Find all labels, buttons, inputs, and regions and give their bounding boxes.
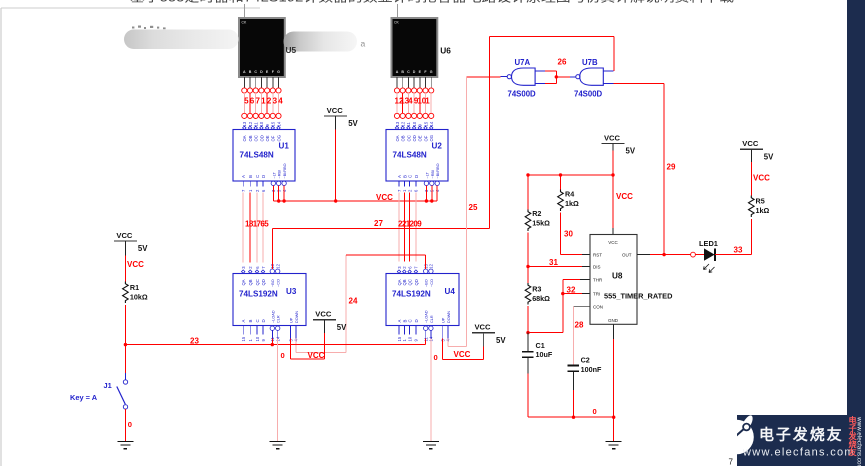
wire col1 bbox=[243, 93, 245, 113]
wire net24 drop to U4 BO bbox=[425, 255, 427, 269]
svg-text:74LS192N: 74LS192N bbox=[392, 290, 431, 299]
wire node circle upper col7 bbox=[276, 88, 281, 93]
power symbol VCC 5V (decoder supply) bbox=[324, 106, 358, 128]
svg-text:VCC: VCC bbox=[608, 240, 618, 245]
wire U2 LT to rail bbox=[425, 186, 427, 202]
U2 input pin numbers bbox=[397, 189, 440, 192]
wire U2 BI to rail bbox=[436, 186, 438, 202]
wire 555 VCC pin stub bbox=[612, 228, 614, 235]
wire node circle upper col7 bbox=[429, 88, 434, 93]
net numbers 5 6 7 1 2 3 4 bbox=[244, 97, 283, 106]
THR pin stub bbox=[580, 278, 590, 280]
wire to TRI pin bbox=[563, 293, 582, 295]
svg-text:1kΩ: 1kΩ bbox=[756, 206, 770, 215]
svg-text:U1: U1 bbox=[279, 142, 290, 151]
left redaction capsule bbox=[124, 30, 239, 50]
svg-text:4: 4 bbox=[278, 97, 283, 106]
wire node26 to U7B output bbox=[556, 76, 570, 78]
wire net24 from U3 DOWN bbox=[295, 339, 297, 353]
U3 bottom labels A B C D bbox=[241, 319, 266, 322]
wire net31 to DIS bbox=[528, 266, 582, 268]
svg-text:5V: 5V bbox=[337, 323, 347, 332]
wire node circle upper col2 bbox=[400, 88, 405, 93]
wire VCC stem to rail bbox=[335, 130, 337, 201]
svg-text:74LS48N: 74LS48N bbox=[240, 151, 274, 160]
wire node circle lower col6 bbox=[270, 113, 275, 118]
wire net24 top horizontal bbox=[346, 254, 426, 256]
display U6 segment labels A-G bbox=[396, 70, 433, 74]
svg-text:VCC: VCC bbox=[127, 260, 144, 269]
svg-text:31: 31 bbox=[549, 258, 558, 267]
wire C1 bottom black bbox=[527, 358, 529, 374]
wire U4 UP drop bbox=[442, 339, 444, 360]
U1 input labels A B C D bbox=[241, 175, 266, 178]
wire OUT to LED bbox=[650, 254, 691, 256]
svg-text:R2: R2 bbox=[532, 209, 541, 218]
svg-text:68kΩ: 68kΩ bbox=[532, 294, 550, 303]
OUT pin stub bbox=[637, 254, 650, 256]
U4 bottom labels A B C D bbox=[397, 319, 419, 322]
svg-text:15: 15 bbox=[423, 121, 428, 126]
wire ground return rail bbox=[528, 416, 614, 418]
svg-text:0: 0 bbox=[128, 420, 132, 429]
svg-text:R1: R1 bbox=[130, 283, 139, 292]
display pin wire segment col7 bbox=[278, 77, 280, 88]
wire col1 bbox=[396, 93, 398, 113]
wire col7 bbox=[278, 93, 280, 113]
NAND gate U7B output bubble bbox=[576, 75, 580, 79]
wire net27 top horizontal bbox=[489, 36, 614, 38]
wire col4 bbox=[413, 93, 415, 113]
ground symbol (U3 CLR) bbox=[270, 442, 286, 449]
svg-text:www.elecfans.com: www.elecfans.com bbox=[856, 416, 863, 466]
svg-text:12: 12 bbox=[429, 263, 434, 268]
svg-text:27: 27 bbox=[374, 219, 383, 228]
svg-text:QB: QB bbox=[248, 279, 253, 285]
svg-text:~CO: ~CO bbox=[277, 279, 281, 287]
svg-text:CON: CON bbox=[593, 305, 603, 310]
U3 top pin numbers bbox=[241, 263, 281, 268]
U2 control labels ~LT ~RBI ~BI/RBO bbox=[425, 163, 440, 178]
wire THR TRI tie riser bbox=[562, 279, 564, 332]
svg-text:1: 1 bbox=[425, 97, 430, 106]
svg-text:G: G bbox=[430, 70, 433, 74]
wire U3 UP drop bbox=[290, 339, 292, 360]
wire net25 U7A output horizontal bbox=[467, 76, 501, 78]
wire node circle lower col1 bbox=[394, 113, 399, 118]
svg-text:555_TIMER_RATED: 555_TIMER_RATED bbox=[604, 292, 673, 301]
svg-text:U7A: U7A bbox=[515, 58, 531, 67]
seven-segment display U6 CK stem bbox=[397, 4, 399, 18]
U1 input pin numbers bbox=[241, 189, 287, 192]
svg-text:OB: OB bbox=[401, 135, 406, 141]
wire U3 CLR to ground bbox=[277, 339, 279, 442]
svg-text:QD: QD bbox=[261, 279, 266, 285]
watermark side strip bbox=[847, 0, 865, 466]
svg-text:U7B: U7B bbox=[582, 58, 598, 67]
display pin wire segment col1 bbox=[396, 77, 398, 88]
svg-text:10: 10 bbox=[255, 336, 260, 341]
svg-text:U2: U2 bbox=[432, 142, 443, 151]
wire U4 VCC stem black bbox=[483, 333, 485, 347]
svg-text:OD: OD bbox=[259, 135, 264, 141]
svg-text:CLR: CLR bbox=[430, 315, 434, 323]
resistor R4 body bbox=[558, 190, 564, 211]
svg-text:10uF: 10uF bbox=[536, 350, 553, 359]
svg-text:VCC: VCC bbox=[604, 133, 621, 142]
wire switch top stub bbox=[124, 373, 126, 380]
svg-text:~BO: ~BO bbox=[425, 279, 429, 287]
wire U2 RBI to rail bbox=[431, 186, 433, 202]
wire R1 VCC stem black bbox=[124, 241, 126, 255]
wire node circle lower col7 bbox=[276, 113, 281, 118]
svg-text:UP: UP bbox=[442, 317, 446, 323]
svg-text:~CO: ~CO bbox=[430, 279, 434, 287]
wire net25 bottom jog bbox=[448, 345, 467, 347]
svg-text:15: 15 bbox=[271, 121, 276, 126]
svg-text:R5: R5 bbox=[756, 197, 765, 206]
wire C2 to ground rail bbox=[573, 390, 575, 417]
svg-text:23: 23 bbox=[190, 337, 199, 346]
wire VCC stem black segment bbox=[335, 116, 337, 130]
wire VCC to R5 bbox=[750, 162, 752, 195]
wire col4 bbox=[260, 93, 262, 113]
switch J1 bottom contact bbox=[123, 405, 127, 409]
wire net23 rail bbox=[125, 344, 425, 346]
wire node circle upper col4 bbox=[412, 88, 417, 93]
seven-segment display U6 body bbox=[392, 18, 438, 77]
svg-text:UP: UP bbox=[290, 317, 294, 323]
resistor R1 body bbox=[123, 282, 129, 304]
wire net25 long drop bbox=[466, 77, 468, 346]
svg-text:~RBI: ~RBI bbox=[431, 170, 435, 179]
svg-text:74LS48N: 74LS48N bbox=[393, 151, 427, 160]
svg-text:4: 4 bbox=[408, 97, 413, 106]
svg-text:VCC: VCC bbox=[116, 231, 133, 240]
wire node circle upper col5 bbox=[417, 88, 422, 93]
wire node circle upper col5 bbox=[265, 88, 270, 93]
wire node circle lower col7 bbox=[429, 113, 434, 118]
wire node circle lower col3 bbox=[406, 113, 411, 118]
svg-text:OF: OF bbox=[423, 135, 428, 141]
svg-text:6: 6 bbox=[250, 97, 255, 106]
svg-text:1kΩ: 1kΩ bbox=[565, 199, 579, 208]
right redaction capsule bbox=[284, 32, 358, 52]
svg-text:24: 24 bbox=[349, 297, 358, 306]
svg-text:28: 28 bbox=[575, 321, 584, 330]
wire net30 to RST bbox=[561, 254, 583, 256]
svg-text:C1: C1 bbox=[536, 341, 545, 350]
svg-text:QD: QD bbox=[414, 279, 419, 285]
wire node circle upper col6 bbox=[270, 88, 275, 93]
svg-text:11: 11 bbox=[406, 121, 411, 126]
bus wires U1 to U3 (nets 18 17 16 5) bbox=[243, 193, 263, 263]
wire U3 UP horizontal bbox=[291, 358, 325, 360]
wire net25 into U4 DOWN bbox=[447, 339, 449, 347]
wire node circle upper col4 bbox=[259, 88, 264, 93]
wire net29 horizontal bbox=[614, 83, 665, 85]
U7B input stubs bbox=[603, 70, 613, 72]
svg-text:OA: OA bbox=[395, 135, 400, 141]
U1 output pin numbers bbox=[242, 121, 281, 126]
wire to THR pin bbox=[563, 278, 580, 280]
junction node 26 bbox=[555, 75, 558, 78]
TRI pin stub bbox=[582, 293, 590, 295]
svg-text:a: a bbox=[361, 39, 366, 49]
wire col2 bbox=[402, 93, 404, 113]
wire LED cathode to R5 bbox=[715, 254, 751, 256]
U2 input labels A B C D bbox=[397, 175, 419, 178]
wire net29 drop bbox=[663, 84, 665, 255]
svg-text:CK: CK bbox=[242, 21, 247, 25]
svg-text:OC: OC bbox=[406, 135, 411, 141]
svg-text:0: 0 bbox=[434, 353, 438, 362]
svg-text:C: C bbox=[255, 175, 260, 178]
ground symbol (U4 CLR) bbox=[423, 442, 439, 449]
wire node circle lower col2 bbox=[400, 113, 405, 118]
svg-text:U5: U5 bbox=[286, 45, 297, 55]
U1 bottom pin stubs bbox=[243, 181, 263, 187]
display pin wire segment col5 bbox=[266, 77, 268, 88]
display pin wire segment col4 bbox=[260, 77, 262, 88]
wire col5 bbox=[266, 93, 268, 113]
wire node circle lower col2 bbox=[247, 113, 252, 118]
svg-text:10: 10 bbox=[259, 121, 264, 126]
svg-text:TRI: TRI bbox=[593, 292, 600, 297]
sheet border left edge bbox=[0, 8, 2, 466]
wire net27 left riser bbox=[488, 37, 490, 229]
U7B output stub bbox=[570, 76, 576, 78]
junction R3/C1/THR bbox=[526, 331, 529, 334]
U4 top pin marks bbox=[397, 269, 433, 273]
svg-text:D: D bbox=[414, 175, 419, 178]
svg-text:基于555定时器和74LS192计数器的数显计时抢答器电路设: 基于555定时器和74LS192计数器的数显计时抢答器电路设计原理图与仿真详解说… bbox=[130, 0, 735, 5]
svg-text:74S00D: 74S00D bbox=[508, 90, 537, 99]
resistor R5 body bbox=[749, 196, 755, 217]
svg-text:QC: QC bbox=[408, 279, 413, 285]
svg-text:CK: CK bbox=[394, 21, 399, 25]
svg-text:Key = A: Key = A bbox=[70, 393, 98, 402]
display U5 segment labels A-G bbox=[243, 70, 280, 74]
svg-text:29: 29 bbox=[667, 163, 676, 172]
wire node circle upper col6 bbox=[423, 88, 428, 93]
svg-text:OE: OE bbox=[418, 135, 423, 141]
wire U4 UP riser to VCC bbox=[483, 346, 485, 359]
junction VCC stem bbox=[334, 199, 337, 202]
wire 555 GND to ground rail bbox=[613, 339, 615, 442]
wire R2 to node 31 bbox=[527, 233, 529, 267]
svg-text:VCC: VCC bbox=[315, 310, 332, 319]
svg-text:~BI/RBO: ~BI/RBO bbox=[283, 163, 287, 178]
svg-text:OC: OC bbox=[254, 135, 259, 141]
svg-text:D: D bbox=[413, 70, 416, 74]
U1 output labels OA-OG bbox=[242, 135, 281, 142]
LED1 triangle bbox=[704, 248, 715, 260]
junction node 32 bbox=[561, 292, 564, 295]
svg-text:10: 10 bbox=[407, 336, 412, 341]
svg-text:B: B bbox=[401, 70, 404, 74]
display pin wire segment col6 bbox=[425, 77, 427, 88]
wire U4 LOAD to rail bbox=[425, 339, 427, 345]
U2 control pin bubbles bbox=[424, 181, 439, 185]
junction node 31 bbox=[526, 265, 529, 268]
svg-text:26: 26 bbox=[558, 58, 567, 67]
U3 bottom pin stubs and numbers bbox=[241, 326, 299, 342]
wire R5 to LED corner bbox=[750, 219, 752, 255]
svg-text:OD: OD bbox=[412, 135, 417, 141]
svg-text:GND: GND bbox=[608, 318, 619, 323]
U1 control labels ~LT ~RBI ~BI/RBO bbox=[272, 163, 287, 178]
svg-text:74LS192N: 74LS192N bbox=[239, 290, 278, 299]
svg-text:D: D bbox=[414, 319, 419, 322]
junction C2 ground rail bbox=[572, 416, 575, 419]
display pin wire segment col3 bbox=[407, 77, 409, 88]
display pin wire segment col5 bbox=[419, 77, 421, 88]
svg-text:QC: QC bbox=[255, 279, 260, 285]
wire node circle lower col6 bbox=[423, 113, 428, 118]
NAND gate U7B body bbox=[580, 68, 604, 85]
wire R3 to bottom junction bbox=[527, 306, 529, 333]
svg-text:33: 33 bbox=[734, 246, 743, 255]
wire node31 to R3 bbox=[527, 267, 529, 284]
svg-text:VCC: VCC bbox=[454, 350, 471, 359]
svg-text:CLR: CLR bbox=[277, 315, 281, 323]
U2 output pin numbers bbox=[395, 121, 434, 126]
svg-text:5V: 5V bbox=[138, 244, 148, 253]
svg-text:15kΩ: 15kΩ bbox=[532, 219, 550, 228]
wire net28 CON to C2 bbox=[573, 307, 575, 365]
watermark corner block bbox=[737, 415, 847, 466]
svg-text:C: C bbox=[408, 175, 413, 178]
display pin wire segment col4 bbox=[413, 77, 415, 88]
display pin wire segment col3 bbox=[255, 77, 257, 88]
wire net27 horizontal bbox=[272, 228, 489, 230]
wire U4 UP horizontal bbox=[443, 358, 484, 360]
wire U1 LT to rail bbox=[272, 186, 274, 202]
wire C2 bottom black bbox=[573, 372, 575, 390]
switch J1 top contact bbox=[123, 380, 127, 384]
wire C1 to ground rail bbox=[527, 374, 529, 418]
svg-text:1: 1 bbox=[261, 97, 266, 106]
svg-text:THR: THR bbox=[593, 277, 603, 282]
svg-text:5: 5 bbox=[244, 97, 249, 106]
svg-text:VCC: VCC bbox=[742, 139, 759, 148]
wire tie bottom to R3 junction bbox=[528, 332, 563, 334]
U2 output labels OA-OG bbox=[395, 135, 434, 142]
svg-text:U8: U8 bbox=[612, 272, 623, 281]
svg-text:A: A bbox=[241, 320, 246, 323]
U4 output labels QA-QD ~BO ~CO bbox=[397, 279, 434, 287]
svg-text:~BO: ~BO bbox=[271, 279, 275, 287]
svg-text:181765: 181765 bbox=[245, 220, 269, 229]
svg-text:C2: C2 bbox=[581, 356, 590, 365]
wire rail to R2 bbox=[527, 175, 529, 210]
svg-text:5V: 5V bbox=[496, 336, 506, 345]
power symbol VCC 5V (U4 up supply) bbox=[472, 323, 506, 345]
junction U2 LT bbox=[425, 199, 428, 202]
wire R4 to RST corner bbox=[560, 213, 562, 255]
wire node circle upper col3 bbox=[253, 88, 258, 93]
svg-text:C: C bbox=[408, 319, 413, 322]
svg-text:~LT: ~LT bbox=[425, 171, 429, 178]
svg-text:30: 30 bbox=[564, 230, 573, 239]
U4 bottom pin stubs and numbers bbox=[397, 326, 451, 342]
seven-segment display U5 body bbox=[239, 18, 285, 77]
svg-text:5V: 5V bbox=[348, 119, 358, 128]
bus wires U2 to U4 (nets 22 21 20 9) bbox=[399, 193, 416, 262]
wire U3 UP riser to VCC bbox=[323, 333, 325, 359]
svg-text:12: 12 bbox=[276, 263, 281, 268]
svg-text:0: 0 bbox=[281, 351, 285, 360]
svg-text:A: A bbox=[396, 70, 399, 74]
svg-text:OA: OA bbox=[242, 135, 247, 141]
svg-text:VCC: VCC bbox=[753, 174, 770, 183]
svg-text:7: 7 bbox=[729, 458, 734, 466]
svg-text:B: B bbox=[402, 320, 407, 323]
junction U3 LOAD bbox=[271, 343, 274, 346]
svg-text:D: D bbox=[261, 319, 266, 322]
wire net27 drop to U7B bbox=[613, 37, 615, 71]
svg-text:221209: 221209 bbox=[398, 220, 422, 229]
wire col2 bbox=[249, 93, 251, 113]
svg-text:~RBI: ~RBI bbox=[278, 170, 282, 179]
wire node circle lower col4 bbox=[259, 113, 264, 118]
svg-text:B: B bbox=[248, 175, 253, 178]
svg-text:VCC: VCC bbox=[616, 192, 633, 201]
display pin wire segment col1 bbox=[243, 77, 245, 88]
counter U3 body bbox=[233, 274, 306, 326]
svg-text:12: 12 bbox=[401, 121, 406, 126]
wire R4 top bbox=[560, 175, 562, 190]
junction rail R2 bbox=[526, 173, 529, 176]
display pin wire segment col2 bbox=[402, 77, 404, 88]
wire col3 bbox=[407, 93, 409, 113]
svg-text:10: 10 bbox=[412, 121, 417, 126]
junction ground rail right bbox=[612, 416, 615, 419]
power symbol VCC 5V (R1 supply) bbox=[114, 231, 148, 253]
wire net24 riser bbox=[345, 255, 347, 352]
wire node circle lower col5 bbox=[417, 113, 422, 118]
sheet border top edge bbox=[1, 7, 260, 9]
svg-text:A: A bbox=[243, 70, 246, 74]
svg-text:VCC: VCC bbox=[308, 351, 325, 360]
svg-text:电子发烧友: 电子发烧友 bbox=[759, 426, 844, 444]
U1 top pin connection diamonds bbox=[243, 126, 281, 129]
junction R1/key/rail bbox=[124, 343, 127, 346]
wire switch to ground bbox=[124, 409, 126, 441]
wire col7 bbox=[430, 93, 432, 113]
svg-text:VCC: VCC bbox=[474, 323, 491, 332]
wire col6 bbox=[425, 93, 427, 113]
CON pin stub bbox=[574, 306, 591, 308]
wire U7A bottom input bbox=[545, 83, 556, 85]
wire rail to switch bbox=[124, 345, 126, 373]
BCD decoder U2 body bbox=[386, 130, 448, 182]
wire VCC to R1 bbox=[124, 255, 126, 281]
wire 555 VCC stem red bbox=[612, 151, 614, 229]
junction U1 RBI bbox=[277, 199, 280, 202]
svg-text:www.elecfans.com: www.elecfans.com bbox=[742, 447, 855, 459]
U1 control pin bubbles bbox=[271, 181, 286, 185]
wire U3 LOAD to rail bbox=[271, 339, 273, 345]
junction rail VCC stem bbox=[611, 173, 614, 176]
svg-text:D: D bbox=[261, 175, 266, 178]
net numbers 12 13 4 9 10 1 bbox=[395, 97, 431, 106]
wire R1 to rail bbox=[124, 305, 126, 345]
U2 bottom pin stubs bbox=[399, 181, 416, 187]
junction net29 at OUT bbox=[662, 253, 665, 256]
svg-text:74S00D: 74S00D bbox=[574, 90, 603, 99]
